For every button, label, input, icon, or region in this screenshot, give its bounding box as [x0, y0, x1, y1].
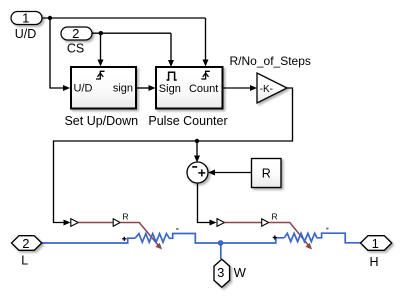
wire CS junction down into Set Up/Down trigger [100, 33, 102, 60]
node junction on U/D wire [48, 16, 52, 20]
svg-text:R: R [262, 166, 271, 180]
trigger icon on Set Up/Down [96, 71, 105, 79]
svg-text:U/D: U/D [15, 27, 37, 41]
wire from inport 1 to junction and across top [42, 17, 206, 19]
physical signal line 2 [225, 222, 262, 224]
trigger icon on Pulse Counter [201, 71, 210, 79]
wire Set Up/Down sign output to Pulse Counter Sign input [136, 87, 149, 89]
svg-text:CS: CS [67, 42, 84, 56]
constant R [252, 159, 282, 188]
wire from inport 2 (CS) to junction and right [92, 32, 171, 34]
subsystem Pulse Counter [156, 67, 223, 109]
physical signal line 2 into variable resistor [269, 223, 309, 246]
PS line arrow 2 (open triangle) [262, 219, 269, 226]
svg-text:3: 3 [217, 265, 224, 280]
variable resistor R0 zigzag [135, 234, 221, 244]
PS converter arrow 1 (open triangle) [71, 219, 79, 227]
physical signal line 1 [78, 222, 113, 224]
inport 1 [11, 12, 42, 25]
wire junction down into sum block [196, 141, 198, 156]
wire vertical drop into Pulse Counter count trigger [205, 18, 207, 60]
svg-text:H: H [369, 255, 378, 269]
gain R/No_of_Steps [257, 73, 287, 103]
wire constant R to sum input [215, 172, 252, 174]
connection port W [214, 259, 230, 287]
svg-text:Pulse Counter: Pulse Counter [148, 114, 227, 128]
subsystem Set Up/Down [71, 67, 136, 109]
wire CS branch down into Pulse Counter sign trigger [170, 33, 172, 60]
svg-text:sign: sign [113, 83, 133, 95]
wire sum output down to second PS converter [198, 184, 211, 223]
variable resistor R1 zigzag [284, 233, 360, 243]
svg-text:Set Up/Down: Set Up/Down [64, 114, 138, 128]
node junction on CS wire [99, 31, 103, 35]
svg-text:Sign: Sign [159, 83, 181, 95]
sum block [187, 162, 208, 183]
PS converter arrow 2 (open triangle) [217, 219, 225, 227]
svg-text:U/D: U/D [74, 83, 93, 95]
svg-text:2: 2 [72, 26, 79, 41]
inport 2 (CS) [61, 27, 92, 40]
electrical line junction down to W port [220, 243, 222, 259]
plus terminal label R0 [122, 237, 126, 241]
svg-text:W: W [234, 265, 247, 280]
svg-text:R: R [123, 212, 129, 222]
node junction on feedback rail above sum [195, 139, 199, 143]
minus terminal tick R1 [326, 228, 328, 230]
electrical line L to resistor R0 [42, 238, 135, 243]
physical signal line 1 into variable resistor [120, 223, 158, 246]
svg-text:Count: Count [189, 83, 218, 95]
minus terminal tick R0 [176, 228, 178, 230]
svg-text:R/No_of_Steps: R/No_of_Steps [230, 54, 311, 68]
wire from junction down to Set Up/Down U/D input [50, 18, 64, 88]
connection port L [12, 236, 42, 251]
plus terminal label R1 [273, 235, 277, 239]
sum sign minus (top input) [192, 166, 197, 168]
connection port H [361, 236, 392, 251]
svg-text:1: 1 [22, 11, 29, 26]
svg-text:L: L [21, 254, 28, 268]
wire gain output down and across (feedback rail) [54, 88, 293, 223]
pulse icon on Pulse Counter [167, 72, 177, 80]
wire Pulse Counter output to gain input [223, 87, 251, 89]
PS line arrow 1 (open triangle) [113, 219, 120, 226]
node junction on electrical bus (wiper W) [218, 240, 224, 246]
svg-text:2: 2 [22, 236, 29, 251]
electrical line junction to resistor R1 [221, 238, 285, 243]
sum sign plus (right input) [198, 172, 205, 174]
svg-text:R: R [272, 212, 278, 222]
svg-text:-K-: -K- [260, 84, 273, 95]
svg-text:1: 1 [372, 236, 379, 251]
